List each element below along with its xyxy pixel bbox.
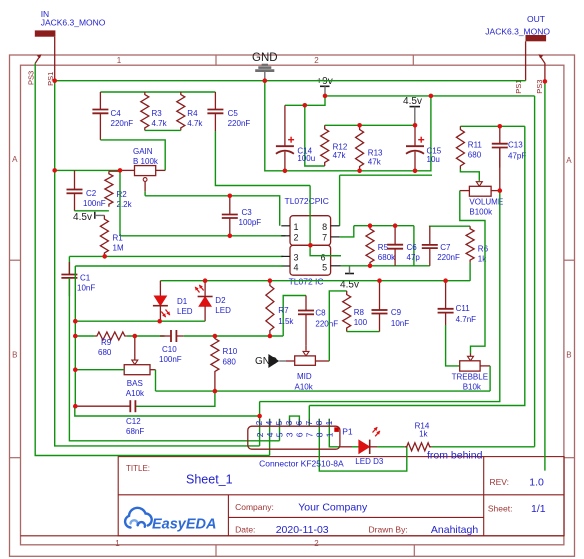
resistor R11 bbox=[456, 126, 464, 169]
svg-text:A: A bbox=[566, 156, 572, 165]
resistor R5 bbox=[366, 226, 374, 266]
wire C4 bottom to gain pot bbox=[100, 140, 165, 171]
node connector pin2 junction bbox=[257, 414, 262, 419]
resistor R12 bbox=[321, 125, 329, 166]
resistor R3 bbox=[141, 92, 149, 130]
resistor R7 bbox=[266, 281, 274, 336]
power 4.5v net label at R1 bbox=[73, 212, 92, 223]
node R13 top bbox=[357, 123, 362, 128]
svg-text:4.7k: 4.7k bbox=[152, 119, 168, 128]
power 4.5v tick at R1 bbox=[95, 212, 105, 219]
pin 7 stub bbox=[331, 236, 340, 238]
wire pin8 rail bbox=[340, 174, 432, 176]
svg-text:47pF: 47pF bbox=[508, 152, 526, 161]
wire C1 down to connector bbox=[69, 278, 279, 441]
svg-text:Sheet:: Sheet: bbox=[488, 504, 513, 514]
label C5 bbox=[228, 109, 251, 128]
wire C5 bottom drop to pin-net bbox=[215, 131, 310, 186]
wire R14 right to rail bbox=[432, 446, 535, 448]
label C10 bbox=[159, 345, 182, 364]
wire tone row y336 left bbox=[75, 335, 95, 337]
svg-text:TREBBLE: TREBBLE bbox=[452, 372, 488, 381]
svg-text:R9: R9 bbox=[101, 338, 112, 347]
label R10 bbox=[223, 347, 238, 367]
resistor R1 bbox=[100, 215, 108, 256]
svg-text:47k: 47k bbox=[333, 151, 347, 160]
wire IN jack pin PS1 lead bbox=[54, 37, 56, 81]
svg-text:B 100k: B 100k bbox=[133, 157, 159, 166]
node R2 gain-left junction bbox=[118, 168, 123, 173]
ground GND arrow at MID bbox=[268, 354, 286, 368]
connector P1 side stub bbox=[340, 446, 352, 448]
svg-text:Date:: Date: bbox=[235, 525, 255, 535]
label R7 bbox=[278, 306, 294, 326]
svg-text:1.0: 1.0 bbox=[529, 477, 544, 489]
svg-text:4.5v: 4.5v bbox=[73, 212, 92, 223]
node C13 top bbox=[498, 124, 503, 129]
connector P1 inner pin numbers bbox=[255, 432, 335, 437]
EasyEDA logo cloud bbox=[125, 508, 152, 528]
pin 8 stub bbox=[331, 225, 340, 227]
frame zone label 1 bottom bbox=[115, 539, 120, 548]
wiper of TREBBLE bbox=[468, 354, 474, 361]
resistor R14 bbox=[405, 443, 432, 451]
sheet border inner frame bbox=[21, 65, 564, 545]
frame zone tick top 1/2 bbox=[215, 55, 217, 65]
wire mid rail y280.7 bbox=[160, 280, 470, 282]
node R5 top bbox=[368, 223, 373, 228]
label C12 bbox=[126, 417, 144, 436]
frame zone label B left bbox=[12, 351, 17, 360]
frame zone label 2 bottom bbox=[314, 539, 319, 548]
node pin6 junction bbox=[308, 243, 313, 248]
svg-text:TL072CPIC: TL072CPIC bbox=[285, 196, 329, 206]
node R5 bottom bbox=[368, 264, 373, 269]
pin 4 stub bbox=[281, 265, 290, 267]
capacitor C13 bbox=[492, 126, 508, 167]
svg-text:R2: R2 bbox=[117, 190, 128, 199]
wire GAIN wiper down bbox=[144, 191, 146, 196]
capacitor C10 bbox=[160, 330, 183, 342]
svg-text:4.7k: 4.7k bbox=[187, 119, 203, 128]
connector P1 body bbox=[248, 426, 340, 449]
svg-text:LED D3: LED D3 bbox=[355, 457, 384, 466]
wire +9v branch to C14/R12 bbox=[285, 96, 325, 105]
label C14 bbox=[297, 147, 315, 164]
svg-text:1/1: 1/1 bbox=[531, 503, 546, 515]
label R14 bbox=[415, 421, 430, 438]
wire OUT jack pin PS1 lead bbox=[525, 41, 527, 80]
title block divider row1 bbox=[118, 494, 564, 496]
capacitor C14 bbox=[276, 137, 294, 171]
title value Sheet_1 bbox=[186, 473, 233, 487]
wire D3 anode link bbox=[352, 446, 359, 448]
svg-text:BAS: BAS bbox=[127, 379, 143, 388]
pin 2 number bbox=[294, 232, 299, 242]
label C8 bbox=[315, 309, 338, 329]
svg-text:4.5v: 4.5v bbox=[403, 96, 422, 107]
wire PS1-IN vertical x54.7 bbox=[54, 81, 56, 171]
svg-text:6: 6 bbox=[295, 420, 304, 425]
wire R9 to C10 bbox=[127, 335, 165, 337]
ground GND net label at MID bbox=[255, 356, 277, 367]
svg-text:R10: R10 bbox=[223, 347, 238, 356]
frame zone tick bottom 1/2 bbox=[215, 545, 217, 557]
svg-text:R5: R5 bbox=[378, 243, 389, 252]
svg-text:PS1: PS1 bbox=[514, 80, 523, 94]
pin 5 stub bbox=[331, 265, 341, 267]
node BAS wiper tap bbox=[133, 334, 138, 339]
frame zone tick top 2/3 bbox=[412, 55, 414, 65]
svg-text:8: 8 bbox=[315, 420, 324, 425]
title label Company: bbox=[235, 502, 274, 512]
node IN tip junction bbox=[52, 78, 57, 83]
wire treble right drop bbox=[489, 366, 491, 391]
svg-text:3: 3 bbox=[285, 432, 295, 437]
svg-text:GND: GND bbox=[252, 52, 278, 64]
svg-text:C8: C8 bbox=[315, 309, 326, 318]
ground GND net label text bbox=[252, 52, 278, 64]
pin 4 number bbox=[294, 263, 299, 273]
svg-text:C5: C5 bbox=[228, 109, 239, 118]
svg-text:220nF: 220nF bbox=[111, 119, 134, 128]
potentiometer RP-TREBBLE body bbox=[460, 361, 480, 371]
title value Anahitagh bbox=[431, 524, 478, 536]
power +9v net label bbox=[316, 76, 332, 87]
power 4.5v bar at pin5 bbox=[345, 266, 354, 274]
svg-text:Company:: Company: bbox=[235, 502, 274, 512]
wire pin3 net y256.4 bbox=[69, 255, 283, 257]
svg-text:LED: LED bbox=[215, 306, 231, 315]
label C7 bbox=[437, 243, 460, 262]
pin 2 stub bbox=[281, 235, 290, 237]
svg-text:R11: R11 bbox=[468, 141, 483, 150]
svg-text:C10: C10 bbox=[162, 345, 177, 354]
svg-text:R7: R7 bbox=[278, 306, 289, 315]
svg-text:Anahitagh: Anahitagh bbox=[431, 524, 478, 536]
svg-text:R13: R13 bbox=[368, 148, 383, 157]
wire link x413.9 bbox=[413, 226, 415, 266]
svg-text:C2: C2 bbox=[86, 189, 97, 198]
wire C10 to R7 bottom bbox=[183, 335, 283, 337]
label C13 bbox=[508, 141, 526, 161]
svg-text:5: 5 bbox=[322, 263, 327, 273]
label R4 bbox=[187, 109, 203, 128]
wire pin5 net y265.8 bbox=[341, 265, 430, 267]
wire connector pin vert x269.6 bbox=[269, 419, 271, 456]
svg-text:+9v: +9v bbox=[316, 76, 332, 87]
frame zone tick bottom 2/3 bbox=[413, 545, 415, 557]
wire GAIN right lead bbox=[156, 169, 166, 171]
label R5 bbox=[378, 243, 396, 262]
title label Drawn By: bbox=[369, 525, 408, 535]
svg-text:47k: 47k bbox=[368, 157, 382, 166]
title block divider col logo bbox=[227, 495, 229, 536]
wire connector pin vert x329.3 to side stub bbox=[329, 419, 340, 447]
wire R12 bottom link bbox=[305, 105, 325, 166]
node PS3 OUT junction bbox=[543, 79, 548, 84]
svg-text:1.5k: 1.5k bbox=[278, 317, 294, 326]
title label Sheet: bbox=[488, 504, 513, 514]
svg-text:680k: 680k bbox=[378, 253, 396, 262]
wire D3 to R14 bbox=[377, 446, 405, 448]
svg-text:1k: 1k bbox=[478, 255, 487, 264]
label C3 bbox=[239, 208, 262, 227]
pin label PS3 of IN jack bbox=[26, 71, 35, 85]
pin 5 number bbox=[322, 263, 327, 273]
svg-text:1: 1 bbox=[115, 539, 120, 548]
wire pin4 net y266 bbox=[75, 265, 283, 267]
node LED return left bbox=[73, 319, 78, 324]
resistor R10 bbox=[211, 336, 219, 391]
ground earth symbol bbox=[255, 65, 274, 81]
title label Date: bbox=[235, 525, 255, 535]
svg-text:2: 2 bbox=[314, 56, 319, 65]
wire OUT jack pin PS3 dogleg bbox=[539, 54, 545, 81]
label LED D3 bbox=[355, 457, 384, 466]
svg-text:Connector KF2510-8A: Connector KF2510-8A bbox=[259, 459, 344, 469]
svg-text:C9: C9 bbox=[391, 308, 402, 317]
wire PS3-IN vertical to connector bbox=[35, 63, 269, 455]
svg-text:10nF: 10nF bbox=[391, 319, 409, 328]
svg-text:100nF: 100nF bbox=[159, 355, 182, 364]
wire VOLUME left lead bbox=[460, 190, 470, 192]
pin label PS1 of OUT jack bbox=[514, 80, 523, 94]
wire connector pin vert x279.5 bbox=[279, 419, 281, 441]
potentiometer RP-VOLUME body bbox=[469, 186, 491, 196]
svg-text:68nF: 68nF bbox=[126, 427, 144, 436]
svg-text:6: 6 bbox=[295, 432, 305, 437]
wiper of BAS bbox=[132, 336, 138, 365]
svg-text:MID: MID bbox=[297, 372, 312, 381]
label R6 bbox=[478, 245, 489, 264]
wire pin6 feed bbox=[310, 186, 341, 256]
svg-text:4.7nF: 4.7nF bbox=[456, 315, 477, 324]
power 4.5v net label top right bbox=[403, 96, 422, 107]
svg-text:C3: C3 bbox=[242, 208, 253, 217]
pin 3 stub bbox=[281, 255, 290, 257]
wire BAS right lead bbox=[150, 369, 156, 371]
power 4.5v net label at pin5 bbox=[340, 280, 359, 291]
wire net y416 bbox=[75, 406, 260, 416]
label R1 bbox=[113, 234, 124, 253]
node +9v rail C15 tap bbox=[429, 94, 434, 99]
svg-text:7: 7 bbox=[322, 232, 327, 242]
svg-text:100: 100 bbox=[354, 318, 368, 327]
svg-text:B10k: B10k bbox=[463, 382, 482, 391]
svg-text:1: 1 bbox=[325, 420, 334, 425]
pin 6 stub bbox=[331, 255, 341, 257]
label VOLUME bbox=[469, 197, 503, 216]
svg-text:C6: C6 bbox=[407, 243, 418, 252]
resistor R13 bbox=[356, 125, 364, 171]
node C15 bottom bbox=[413, 169, 418, 174]
svg-text:1k: 1k bbox=[419, 429, 428, 438]
title value 2020-11-03 bbox=[276, 524, 329, 536]
svg-text:1: 1 bbox=[294, 222, 299, 232]
capacitor C5 bbox=[207, 92, 223, 131]
wire VOLUME right lead bbox=[491, 190, 500, 192]
wire BAS right drop bbox=[155, 370, 157, 391]
svg-text:JACK6.3_MONO: JACK6.3_MONO bbox=[41, 18, 106, 28]
svg-text:5: 5 bbox=[275, 432, 285, 437]
label C2 bbox=[83, 189, 106, 208]
connector P1 outer pin numbers bbox=[255, 420, 334, 425]
svg-text:A: A bbox=[12, 155, 18, 164]
wire GAIN left lead bbox=[120, 169, 135, 171]
capacitor C1 bbox=[61, 262, 77, 296]
pin 6 number bbox=[320, 253, 325, 263]
svg-text:680: 680 bbox=[98, 348, 112, 357]
label R9 bbox=[98, 338, 112, 357]
svg-text:5: 5 bbox=[275, 420, 284, 425]
node R13 bottom bbox=[357, 169, 362, 174]
frame zone label A right bbox=[566, 156, 572, 165]
node R10 top bbox=[213, 334, 218, 339]
capacitor C6 bbox=[387, 226, 403, 266]
svg-text:VOLUME: VOLUME bbox=[469, 197, 503, 206]
node D2 top bbox=[203, 278, 208, 283]
svg-text:7: 7 bbox=[305, 432, 315, 437]
svg-text:3: 3 bbox=[294, 253, 299, 263]
wire PS1 down to connector bbox=[55, 170, 260, 446]
wire pin8 supply y175.2 bbox=[339, 175, 341, 226]
node BAS left junction bbox=[73, 367, 78, 372]
connector P1 pin stubs bbox=[260, 419, 330, 426]
wire MID left lead bbox=[286, 360, 295, 362]
title value 1/1 bbox=[531, 503, 546, 515]
pin label PS1 of IN jack bbox=[46, 72, 55, 86]
label C4 bbox=[111, 109, 134, 128]
svg-text:680: 680 bbox=[468, 151, 482, 160]
title value 1.0 bbox=[529, 477, 544, 489]
wire C7-R6 top y226.2 bbox=[429, 225, 470, 227]
svg-text:10nF: 10nF bbox=[77, 284, 95, 293]
wire connector pin jumper 3-6 bbox=[290, 416, 300, 426]
op-amp U1 unit B body bbox=[290, 245, 331, 275]
svg-text:8: 8 bbox=[315, 432, 325, 437]
node PS1/C2 node bbox=[52, 168, 57, 173]
wire out-jack sleeve drop x544.9 bbox=[544, 81, 546, 470]
potentiometer RP-MID body bbox=[295, 356, 316, 365]
wire R3-R4 bottom link y130.4 bbox=[145, 129, 181, 131]
wire jack bus y80 bbox=[55, 80, 526, 82]
connector P1 pin1 marker bbox=[334, 427, 339, 432]
wire C1 branch bbox=[68, 256, 70, 274]
wire volume-left bus bbox=[460, 191, 485, 354]
resistor R2 bbox=[105, 171, 120, 207]
svg-text:100u: 100u bbox=[297, 154, 315, 163]
label C6 bbox=[407, 243, 421, 262]
capacitor C2 bbox=[67, 170, 83, 210]
LED D3 bbox=[359, 426, 382, 454]
frame zone tick right B end bbox=[564, 457, 575, 459]
svg-text:Sheet_1: Sheet_1 bbox=[186, 473, 233, 487]
svg-text:2: 2 bbox=[255, 432, 265, 437]
wire +9v rail y95.9 bbox=[325, 95, 535, 97]
label P1 bbox=[342, 426, 353, 436]
label R13 bbox=[368, 148, 383, 166]
label D1 bbox=[177, 297, 193, 316]
node GND junction on bus bbox=[263, 78, 268, 83]
svg-text:R1: R1 bbox=[113, 234, 124, 243]
label C1 bbox=[77, 274, 95, 293]
wire pin7 top net y225.7 bbox=[354, 225, 414, 227]
svg-text:EasyEDA: EasyEDA bbox=[152, 517, 216, 533]
svg-text:B: B bbox=[12, 351, 17, 360]
frame zone tick left B end bbox=[10, 457, 21, 459]
svg-text:R4: R4 bbox=[187, 109, 198, 118]
title label TITLE: bbox=[126, 464, 150, 473]
connector J-IN JACK6.3_MONO body bbox=[35, 30, 56, 36]
svg-text:from behind: from behind bbox=[427, 450, 483, 462]
label Connector KF2510-8A bbox=[259, 459, 344, 469]
svg-text:3: 3 bbox=[285, 420, 294, 425]
svg-text:220nF: 220nF bbox=[437, 253, 460, 262]
title value Your Company bbox=[298, 502, 368, 514]
svg-text:TL072 IC: TL072 IC bbox=[289, 277, 324, 287]
wire output net down x499.8 bbox=[260, 191, 500, 402]
svg-text:7: 7 bbox=[305, 420, 314, 425]
wire C2-R2 bottom y210.8 bbox=[75, 210, 109, 212]
node VOLUME right output bbox=[498, 188, 503, 193]
svg-text:B100k: B100k bbox=[469, 208, 493, 217]
svg-text:680: 680 bbox=[223, 358, 237, 367]
svg-text:GAIN: GAIN bbox=[133, 147, 153, 156]
svg-text:1M: 1M bbox=[113, 244, 124, 253]
svg-text:D2: D2 bbox=[215, 296, 226, 305]
wire rail right drop x534.6 bbox=[534, 96, 536, 447]
wiper of MID bbox=[303, 345, 309, 356]
wire R6 bottom drop bbox=[469, 263, 471, 281]
svg-text:B: B bbox=[566, 351, 571, 360]
wire R2 top node drop x120 bbox=[119, 170, 121, 235]
svg-text:100nF: 100nF bbox=[83, 199, 106, 208]
wire C12 right link bbox=[135, 391, 215, 406]
node C6 top bbox=[393, 223, 398, 228]
svg-text:Your Company: Your Company bbox=[298, 502, 368, 514]
wire BAS left lead bbox=[75, 369, 124, 371]
wire input node horizontal y170.4 bbox=[55, 169, 120, 171]
label R12 bbox=[333, 143, 348, 160]
node C3 top bbox=[228, 194, 233, 199]
svg-text:Drawn By:: Drawn By: bbox=[369, 525, 408, 535]
svg-text:R3: R3 bbox=[152, 109, 163, 118]
potentiometer RP-GAIN body bbox=[135, 166, 156, 176]
svg-text:P1: P1 bbox=[342, 426, 353, 436]
wiper of VOLUME bbox=[476, 182, 482, 187]
wire gnd rail y170.8 bbox=[265, 81, 431, 171]
svg-text:C13: C13 bbox=[508, 141, 523, 150]
wire connector pin vert x259.6 bbox=[259, 402, 261, 446]
label TREBBLE bbox=[452, 372, 488, 391]
label D2 bbox=[215, 296, 231, 315]
wire 4.5v mid rail y125.3 bbox=[325, 124, 415, 126]
pin 1 number bbox=[294, 222, 299, 232]
svg-text:8: 8 bbox=[322, 222, 327, 232]
power +9v bar symbol bbox=[320, 86, 330, 96]
frame zone label B right bbox=[566, 351, 571, 360]
node R1 bottom bbox=[102, 254, 107, 259]
node tone row left bbox=[73, 334, 78, 339]
pin 7 number bbox=[322, 232, 327, 242]
wiper of GAIN bbox=[143, 178, 147, 192]
LED D2 bbox=[193, 281, 212, 322]
resistor R4 bbox=[177, 92, 185, 130]
node C3 bottom bbox=[228, 234, 233, 239]
EasyEDA logo text bbox=[152, 517, 216, 533]
pin 3 number bbox=[294, 253, 299, 263]
